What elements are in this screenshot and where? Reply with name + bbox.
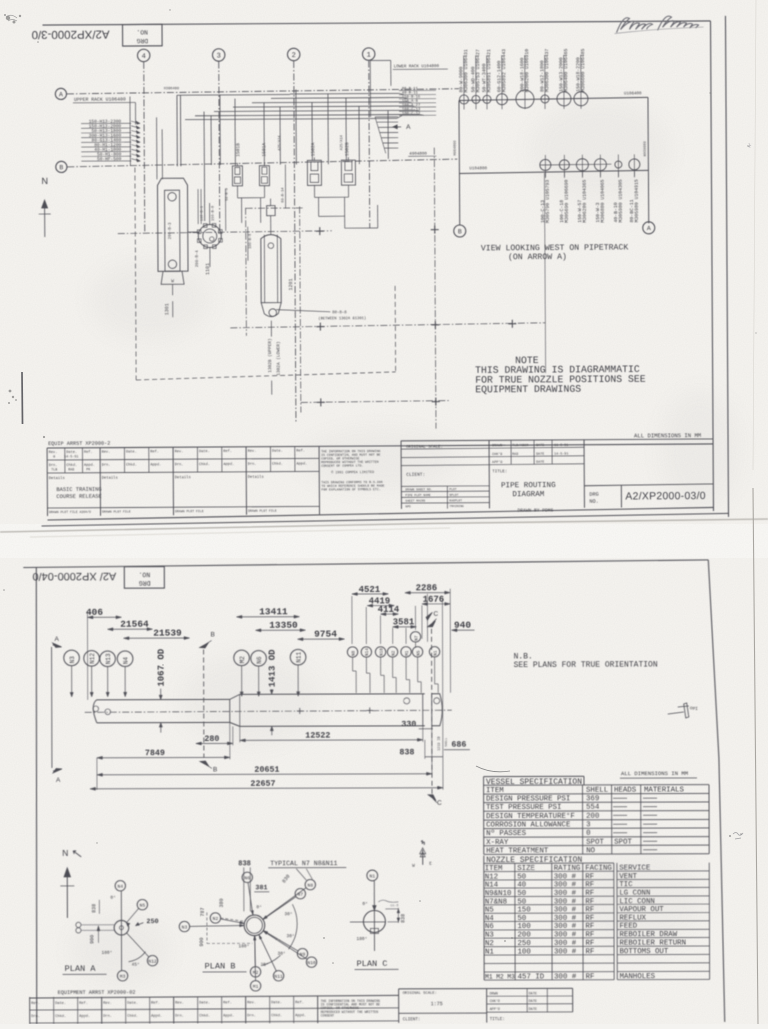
svg-text:DATE: DATE [529,992,537,996]
svg-text:13411: 13411 [259,606,288,617]
svg-text:80-B-8: 80-B-8 [332,311,347,315]
svg-text:N12: N12 [89,653,96,664]
svg-text:N4: N4 [485,915,494,923]
svg-text:N7: N7 [414,635,419,641]
svg-text:BASIC TRAINING: BASIC TRAINING [56,487,101,493]
svg-text:DATE: DATE [529,1008,537,1012]
svg-text:A: A [56,777,61,784]
svg-text:1502B: 1502B [344,142,350,156]
svg-text:200-B-4: 200-B-4 [196,250,200,267]
svg-text:DRG: DRG [589,492,598,498]
svg-text:H306400: H306400 [164,87,179,91]
svg-text:PIPE PLOT NAME: PIPE PLOT NAME [405,494,430,497]
svg-text:VIEW LOOKING WEST ON PIPETRACK: VIEW LOOKING WEST ON PIPETRACK [481,243,629,253]
svg-text:1501B: 1501B [235,143,241,157]
svg-text:M306200 U106910: M306200 U106910 [524,49,530,92]
svg-text:A: A [55,636,60,643]
svg-text:50-B-9: 50-B-9 [226,188,230,201]
svg-text:LOWER RACK U104800: LOWER RACK U104800 [394,65,440,69]
svg-text:1:75: 1:75 [431,1001,443,1007]
svg-text:Chkd.: Chkd. [126,462,137,467]
svg-text:200: 200 [517,932,530,940]
svg-text:100: 100 [518,948,531,956]
svg-text:SIZE: SIZE [517,865,535,873]
svg-text:Details: Details [49,476,65,481]
svg-text:2286: 2286 [416,583,438,593]
svg-text:30°: 30° [286,933,294,939]
svg-text:21564: 21564 [120,619,149,630]
svg-text:180°: 180° [238,943,249,949]
svg-text:300 #: 300 # [554,974,577,982]
svg-text:1501A: 1501A [261,143,267,157]
svg-text:ORIGINAL SCALE:: ORIGINAL SCALE: [403,992,437,996]
svg-text:CHK'D: CHK'D [492,452,502,457]
svg-text:A2/XP2000-3/0: A2/XP2000-3/0 [32,28,110,40]
svg-text:369: 369 [586,795,599,803]
svg-text:M305891 U106421: M305891 U106421 [486,49,492,92]
svg-text:Ref.: Ref. [84,450,93,455]
svg-text:RAD: RAD [68,468,74,472]
svg-text:686: 686 [451,740,466,750]
svg-text:TLB: TLB [51,468,57,472]
svg-text:APP'D: APP'D [492,460,502,465]
svg-text:DRAWN SHEET NO.: DRAWN SHEET NO. [405,488,432,491]
svg-text:CLIENT:: CLIENT: [403,1018,421,1022]
svg-text:250: 250 [517,940,530,948]
svg-text:NO: NO [586,847,595,855]
svg-text:150: 150 [517,906,530,914]
svg-text:Date.: Date. [66,451,77,455]
svg-text:0°: 0° [256,904,261,910]
svg-text:A30A/0: A30A/0 [79,510,91,514]
svg-text:300 #: 300 # [554,932,577,940]
svg-text:N11: N11 [274,974,283,980]
svg-text:Appd.: Appd. [150,462,161,467]
svg-text:A25/A14: A25/A14 [277,135,282,150]
svg-text:APP'D: APP'D [490,1007,500,1012]
svg-text:B: B [458,228,462,235]
svg-text:14-5-91: 14-5-91 [64,455,78,459]
svg-text:300 #: 300 # [554,873,577,881]
svg-text:CHK'D: CHK'D [490,999,500,1004]
svg-text:N: N [62,848,68,858]
svg-text:SPOT: SPOT [614,838,632,846]
svg-text:M305753 U106427: M305753 U106427 [475,49,481,92]
svg-text:406: 406 [86,607,103,618]
svg-text:UPPER RACK U106400: UPPER RACK U106400 [74,97,126,103]
svg-text:Details: Details [248,475,264,480]
svg-text:DRG: DRG [139,579,151,586]
svg-text:Details: Details [175,475,191,480]
svg-text:1302A (LOWER): 1302A (LOWER) [276,341,281,375]
svg-text:os-6: os-6 [390,904,398,908]
svg-text:50: 50 [517,890,526,898]
svg-text:N2: N2 [485,940,494,948]
svg-text:M1 M2 M3: M1 M2 M3 [485,974,515,981]
svg-text:30°: 30° [278,951,286,957]
svg-text:300 #: 300 # [554,882,577,890]
svg-text:B: B [213,766,217,773]
svg-text:Rev.: Rev. [175,1002,184,1006]
svg-text:TEST PRESSURE PSI: TEST PRESSURE PSI [486,804,561,812]
svg-text:DESIGN PRESSURE PSI: DESIGN PRESSURE PSI [486,796,570,804]
svg-text:N12: N12 [485,873,498,881]
svg-text:Appd.: Appd. [84,463,95,468]
svg-text:RF: RF [585,940,594,948]
svg-text:PLOT: PLOT [449,488,456,491]
svg-text:DESIGN TEMPERATURE°F: DESIGN TEMPERATURE°F [486,812,575,821]
svg-text:EQUIPMENT ARRST XP2000-02: EQUIPMENT ARRST XP2000-02 [58,990,136,996]
svg-text:DRAWN PLOT FILE: DRAWN PLOT FILE [49,510,78,514]
svg-text:1067 OD: 1067 OD [157,648,167,686]
svg-text:DRWN: DRWN [490,992,498,996]
svg-text:(BETWEEN 1302A &1301): (BETWEEN 1302A &1301) [318,316,366,321]
svg-text:N5: N5 [140,903,146,909]
svg-text:3: 3 [586,821,590,829]
svg-text:100: 100 [517,923,530,931]
svg-text:U104800: U104800 [469,167,487,171]
svg-text:Drn.: Drn. [248,462,257,467]
svg-text:14-5-91: 14-5-91 [554,453,568,457]
svg-text:N4: N4 [117,884,123,890]
svg-text:N6: N6 [244,875,250,881]
svg-text:HEADS: HEADS [614,786,637,794]
svg-text:N14: N14 [365,648,370,656]
svg-text:N14: N14 [485,882,499,890]
svg-text:EQUIP ARRST XP2000-2: EQUIP ARRST XP2000-2 [48,441,110,447]
svg-text:DRAWN: DRAWN [492,444,502,448]
svg-text:N13: N13 [105,653,112,664]
svg-text:X-RAY: X-RAY [486,839,509,847]
svg-text:SEE PLANS FOR TRUE ORIENTATION: SEE PLANS FOR TRUE ORIENTATION [514,661,658,670]
svg-text:300 #: 300 # [554,906,577,914]
svg-text:50: 50 [517,915,526,923]
svg-text:380: 380 [219,898,225,907]
svg-text:180°: 180° [356,936,367,942]
svg-text:SPOT: SPOT [586,839,604,847]
svg-text:TRAINING: TRAINING [449,505,464,508]
svg-text:150-B-8: 150-B-8 [212,206,216,221]
svg-text:22657: 22657 [250,779,275,789]
svg-text:Drn.: Drn. [49,463,58,468]
svg-text:Rev.: Rev. [247,1001,256,1005]
svg-text:Date.: Date. [55,1002,66,1006]
svg-text:PLAN C: PLAN C [357,959,388,969]
svg-text:381: 381 [255,884,267,892]
svg-text:Rev.: Rev. [31,1002,40,1006]
svg-text:Date.: Date. [199,1001,210,1005]
svg-text:Drn.: Drn. [31,1014,40,1019]
svg-text:1676: 1676 [423,595,445,605]
svg-text:838: 838 [400,914,406,923]
svg-text:Rev.: Rev. [103,1002,112,1006]
svg-text:1: 1 [367,52,371,60]
svg-text:Drn.: Drn. [102,463,111,468]
svg-text:300 #: 300 # [554,940,577,948]
svg-text:DATE: DATE [536,444,544,448]
svg-text:4521: 4521 [359,585,381,595]
svg-text:Drn.: Drn. [175,1014,184,1019]
svg-text:NO.: NO. [139,570,151,577]
svg-text:N2: N2 [391,650,396,656]
svg-text:Date.: Date. [126,450,137,454]
svg-text:N5: N5 [416,650,421,656]
svg-text:838: 838 [91,904,97,913]
svg-text:12522: 12522 [305,731,330,741]
svg-text:Drn.: Drn. [247,1013,256,1018]
svg-text:Date.: Date. [271,1001,282,1005]
svg-text:Ref.: Ref. [150,449,159,454]
svg-text:NO.: NO. [136,28,148,35]
svg-text:N7: N7 [298,892,304,898]
svg-text:7849: 7849 [145,748,165,758]
svg-text:A: A [406,124,411,131]
svg-text:B: B [211,631,215,638]
svg-text:Rev.: Rev. [49,451,58,455]
svg-text:B: B [59,164,63,171]
svg-text:DATE: DATE [529,1000,537,1004]
svg-text:TITLE:: TITLE: [490,1018,505,1022]
svg-text:CONSENT: CONSENT [321,1013,334,1017]
svg-text:Ref.: Ref. [151,1001,160,1006]
svg-text:Appd.: Appd. [79,1014,90,1019]
svg-text:13350: 13350 [269,620,298,631]
svg-text:RAOPLOT: RAOPLOT [449,499,462,502]
svg-text:50: 50 [517,898,526,906]
svg-text:C: C [437,800,442,807]
svg-text:PLAN B: PLAN B [205,961,236,971]
svg-text:DRAWN PLOT FILE: DRAWN PLOT FILE [175,509,204,513]
svg-text:TLB/ABCR: TLB/ABCR [512,443,528,448]
svg-text:80-B-14: 80-B-14 [282,187,286,202]
svg-text:1201: 1201 [288,278,294,290]
svg-text:PI: PI [693,708,699,712]
svg-text:DRG: DRG [136,37,148,44]
svg-text:DIAGRAM: DIAGRAM [512,491,544,499]
svg-text:U106400: U106400 [624,92,642,96]
svg-text:ALL DIMENSIONS IN MM: ALL DIMENSIONS IN MM [621,770,688,777]
svg-text:A25/A14: A25/A14 [339,135,344,150]
svg-text:N11: N11 [296,651,303,662]
svg-text:Details: Details [102,476,118,481]
svg-text:N1: N1 [369,874,375,880]
svg-text:Chkd.: Chkd. [199,1013,210,1018]
svg-text:ITEM: ITEM [486,787,504,795]
svg-text:Rev.: Rev. [248,450,257,454]
svg-text:N5: N5 [485,907,494,915]
svg-text:1302B (UPPER): 1302B (UPPER) [268,338,273,372]
svg-text:900: 900 [199,937,205,946]
svg-text:N10: N10 [379,648,384,656]
svg-text:838: 838 [399,747,414,757]
svg-text:TITLE:: TITLE: [492,470,507,474]
svg-text:SPLOT: SPLOT [449,494,458,497]
svg-text:H904800: H904800 [454,140,458,155]
svg-text:Appd.: Appd. [295,1013,306,1018]
svg-text:9754: 9754 [314,629,337,640]
svg-text:0: 0 [586,830,590,838]
svg-text:SHELL: SHELL [445,738,448,747]
svg-text:HEAT TREATMENT: HEAT TREATMENT [486,847,549,855]
svg-text:CORROSION ALLOWANCE: CORROSION ALLOWANCE [486,822,571,830]
svg-text:2: 2 [292,52,296,60]
svg-text:300 #: 300 # [554,915,577,923]
svg-text:N8: N8 [351,650,356,656]
svg-text:40: 40 [517,882,526,890]
svg-text:RF: RF [585,948,594,956]
svg-text:RF: RF [585,931,594,939]
svg-text:Chkd.: Chkd. [272,462,283,467]
svg-text:N4: N4 [123,657,130,665]
svg-text:Appd.: Appd. [151,1014,162,1019]
svg-text:N1: N1 [485,948,494,956]
svg-text:Ref.: Ref. [295,1000,304,1005]
svg-text:0°: 0° [110,895,115,901]
svg-text:N9&N10: N9&N10 [485,890,512,898]
svg-text:PIPE ROUTING: PIPE ROUTING [501,482,556,490]
svg-text:M305790 U105793: M305790 U105793 [545,180,551,223]
svg-text:Nº PASSES: Nº PASSES [486,829,527,838]
svg-text:50-HF-500: 50-HF-500 [97,156,122,162]
svg-text:3581: 3581 [393,617,415,627]
svg-text:11-5-91: 11-5-91 [554,444,568,448]
svg-text:MANHOLES: MANHOLES [620,973,656,981]
svg-text:(ON ARROW A): (ON ARROW A) [508,252,567,262]
svg-text:Drn.: Drn. [175,462,184,467]
svg-text:0°: 0° [362,901,367,907]
svg-text:COURSE RELEASE: COURSE RELEASE [56,494,101,500]
svg-text:300 #: 300 # [554,923,577,931]
svg-text:940: 940 [454,620,471,631]
svg-text:300 #: 300 # [554,948,577,956]
svg-text:4: 4 [142,53,146,61]
svg-text:SHEET MACRO: SHEET MACRO [405,500,425,503]
svg-text:A: A [647,225,651,232]
svg-text:50: 50 [517,873,526,881]
svg-text:4114: 4114 [378,605,400,615]
svg-text:N6: N6 [485,923,494,931]
svg-text:Chkd.: Chkd. [271,1013,282,1018]
svg-text:MATERIALS: MATERIALS [644,786,685,794]
svg-text:100-B-8: 100-B-8 [249,234,253,249]
svg-text:DATE: DATE [536,461,544,465]
svg-text:838: 838 [238,860,251,868]
svg-text:1502A: 1502A [310,142,316,156]
svg-text:300 #: 300 # [554,890,577,898]
svg-text:N8: N8 [307,883,313,889]
svg-text:Date.: Date. [272,450,283,454]
svg-text:M306400 U106465: M306400 U106465 [563,49,569,92]
svg-text:300 #: 300 # [554,898,577,906]
svg-text:Chkd.: Chkd. [66,463,77,468]
svg-text:EQUIPMENT DRAWINGS: EQUIPMENT DRAWINGS [475,384,581,396]
svg-text:DATE: DATE [536,453,544,457]
svg-text:21539: 21539 [153,628,182,639]
svg-text:Chkd.: Chkd. [127,1014,138,1019]
svg-text:330: 330 [401,719,416,729]
svg-text:RAD: RAD [512,453,518,457]
svg-text:30°: 30° [284,911,292,917]
svg-text:Ref.: Ref. [223,449,232,454]
svg-text:0: 0 [53,455,55,459]
svg-text:787: 787 [200,907,206,916]
svg-text:NPD: NPD [405,505,411,508]
svg-text:M305892 U106443: M305892 U106443 [501,49,507,92]
svg-text:1219 ID: 1219 ID [438,736,442,750]
svg-text:N7&N8: N7&N8 [485,898,507,906]
svg-text:N10: N10 [307,960,316,966]
svg-text:ITEM: ITEM [485,865,503,873]
svg-text:20651: 20651 [254,765,279,775]
svg-text:N1: N1 [433,650,438,656]
svg-text:TYPICAL N7 N8&N11: TYPICAL N7 N8&N11 [270,860,337,867]
svg-text:200: 200 [586,813,599,821]
svg-text:3: 3 [217,52,221,60]
svg-text:M306300 U106431: M306300 U106431 [463,49,469,92]
svg-text:M306600 U106485: M306600 U106485 [580,48,586,91]
svg-text:M306300 U106437: M306300 U106437 [544,49,550,92]
svg-text:N3: N3 [69,656,76,664]
svg-text:NO.: NO. [589,499,598,505]
svg-text:DRAWN PLOT FILE: DRAWN PLOT FILE [248,509,277,513]
svg-text:N3: N3 [182,925,188,931]
svg-text:Drn.: Drn. [103,1014,112,1019]
svg-text:SHELL: SHELL [586,787,608,795]
svg-text:C: C [433,611,438,618]
svg-text:Chkd.: Chkd. [199,462,210,467]
svg-text:554: 554 [586,804,600,812]
svg-text:N3: N3 [485,932,494,940]
svg-text:A2/ XP2000-04/0: A2/ XP2000-04/0 [32,570,116,582]
svg-text:N2: N2 [213,916,219,922]
svg-text:Appd.: Appd. [223,1013,234,1018]
svg-text:RATING: RATING [554,865,581,873]
svg-text:M1: M1 [253,984,259,990]
svg-text:Date.: Date. [127,1002,138,1006]
svg-text:Rev.: Rev. [175,450,184,454]
svg-text:Date.: Date. [199,450,210,454]
svg-text:Appd.: Appd. [223,462,234,467]
svg-text:Rev.: Rev. [102,451,111,455]
svg-text:RF: RF [586,973,595,981]
svg-text:Ref.: Ref. [223,1000,232,1005]
svg-text:A: A [59,91,63,98]
svg-text:200-B-3: 200-B-3 [169,222,173,239]
svg-text:457 ID: 457 ID [518,974,545,982]
svg-text:N: N [41,176,48,186]
svg-text:DRAWN BY PDMS: DRAWN BY PDMS [517,507,553,513]
svg-text:DRAWN PLOT FILE: DRAWN PLOT FILE [102,510,131,514]
svg-text:Ref.: Ref. [79,1001,88,1006]
svg-text:M1: M1 [405,650,410,656]
svg-text:Chkd.: Chkd. [55,1014,66,1019]
